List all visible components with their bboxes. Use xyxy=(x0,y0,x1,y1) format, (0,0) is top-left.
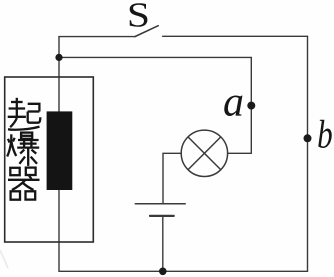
svg-text:b: b xyxy=(317,112,333,157)
svg-text:S: S xyxy=(127,0,150,35)
svg-text:a: a xyxy=(223,80,244,126)
